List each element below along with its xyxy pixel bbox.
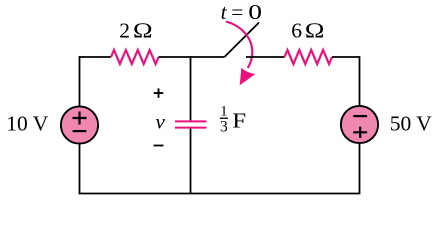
svg-text:10 V: 10 V xyxy=(6,112,48,136)
svg-text:=: = xyxy=(231,0,243,24)
wire capacitor branch upper xyxy=(190,56,192,120)
switch closing arrow arc xyxy=(226,22,252,69)
resistor R1 2-ohm zigzag xyxy=(111,50,159,64)
capacitor C1 bottom plate xyxy=(175,127,207,129)
V1 plus symbol xyxy=(73,112,87,125)
capacitor voltage plus sign xyxy=(154,88,164,97)
wire top-left segment xyxy=(80,56,112,58)
svg-text:Ω: Ω xyxy=(133,20,153,43)
svg-text:Ω: Ω xyxy=(305,20,325,43)
wire capacitor branch lower xyxy=(190,129,192,194)
V2 plus symbol xyxy=(353,127,367,138)
svg-text:t: t xyxy=(221,0,228,24)
svg-text:2: 2 xyxy=(119,19,130,43)
V2 minus symbol xyxy=(353,115,367,117)
wire top-middle segment xyxy=(159,56,225,58)
switch arrow head xyxy=(240,68,256,86)
wire top-right segment xyxy=(332,56,360,58)
switch SW1 blade (open) xyxy=(224,23,259,58)
capacitor C1 top plate xyxy=(175,120,207,122)
resistor R2 6-ohm zigzag xyxy=(285,50,333,64)
svg-text:50 V: 50 V xyxy=(390,112,432,136)
svg-text:1: 1 xyxy=(220,104,227,120)
voltage source V1 circle xyxy=(61,106,98,143)
wire top right-of-switch segment xyxy=(246,56,285,58)
wire left vertical upper xyxy=(79,56,81,106)
svg-text:0: 0 xyxy=(248,1,262,25)
capacitor voltage minus sign xyxy=(154,145,164,147)
V1 minus symbol xyxy=(73,130,87,132)
voltage source V2 circle xyxy=(341,106,378,143)
capacitor value fraction bar xyxy=(220,117,228,119)
svg-text:6: 6 xyxy=(291,19,302,43)
svg-text:F: F xyxy=(232,109,246,133)
wire right vertical upper xyxy=(359,56,361,106)
wire left vertical lower xyxy=(79,144,81,194)
wire bottom xyxy=(79,193,361,195)
svg-text:3: 3 xyxy=(220,119,228,136)
wire right vertical lower xyxy=(359,143,361,193)
svg-text:v: v xyxy=(156,110,166,134)
